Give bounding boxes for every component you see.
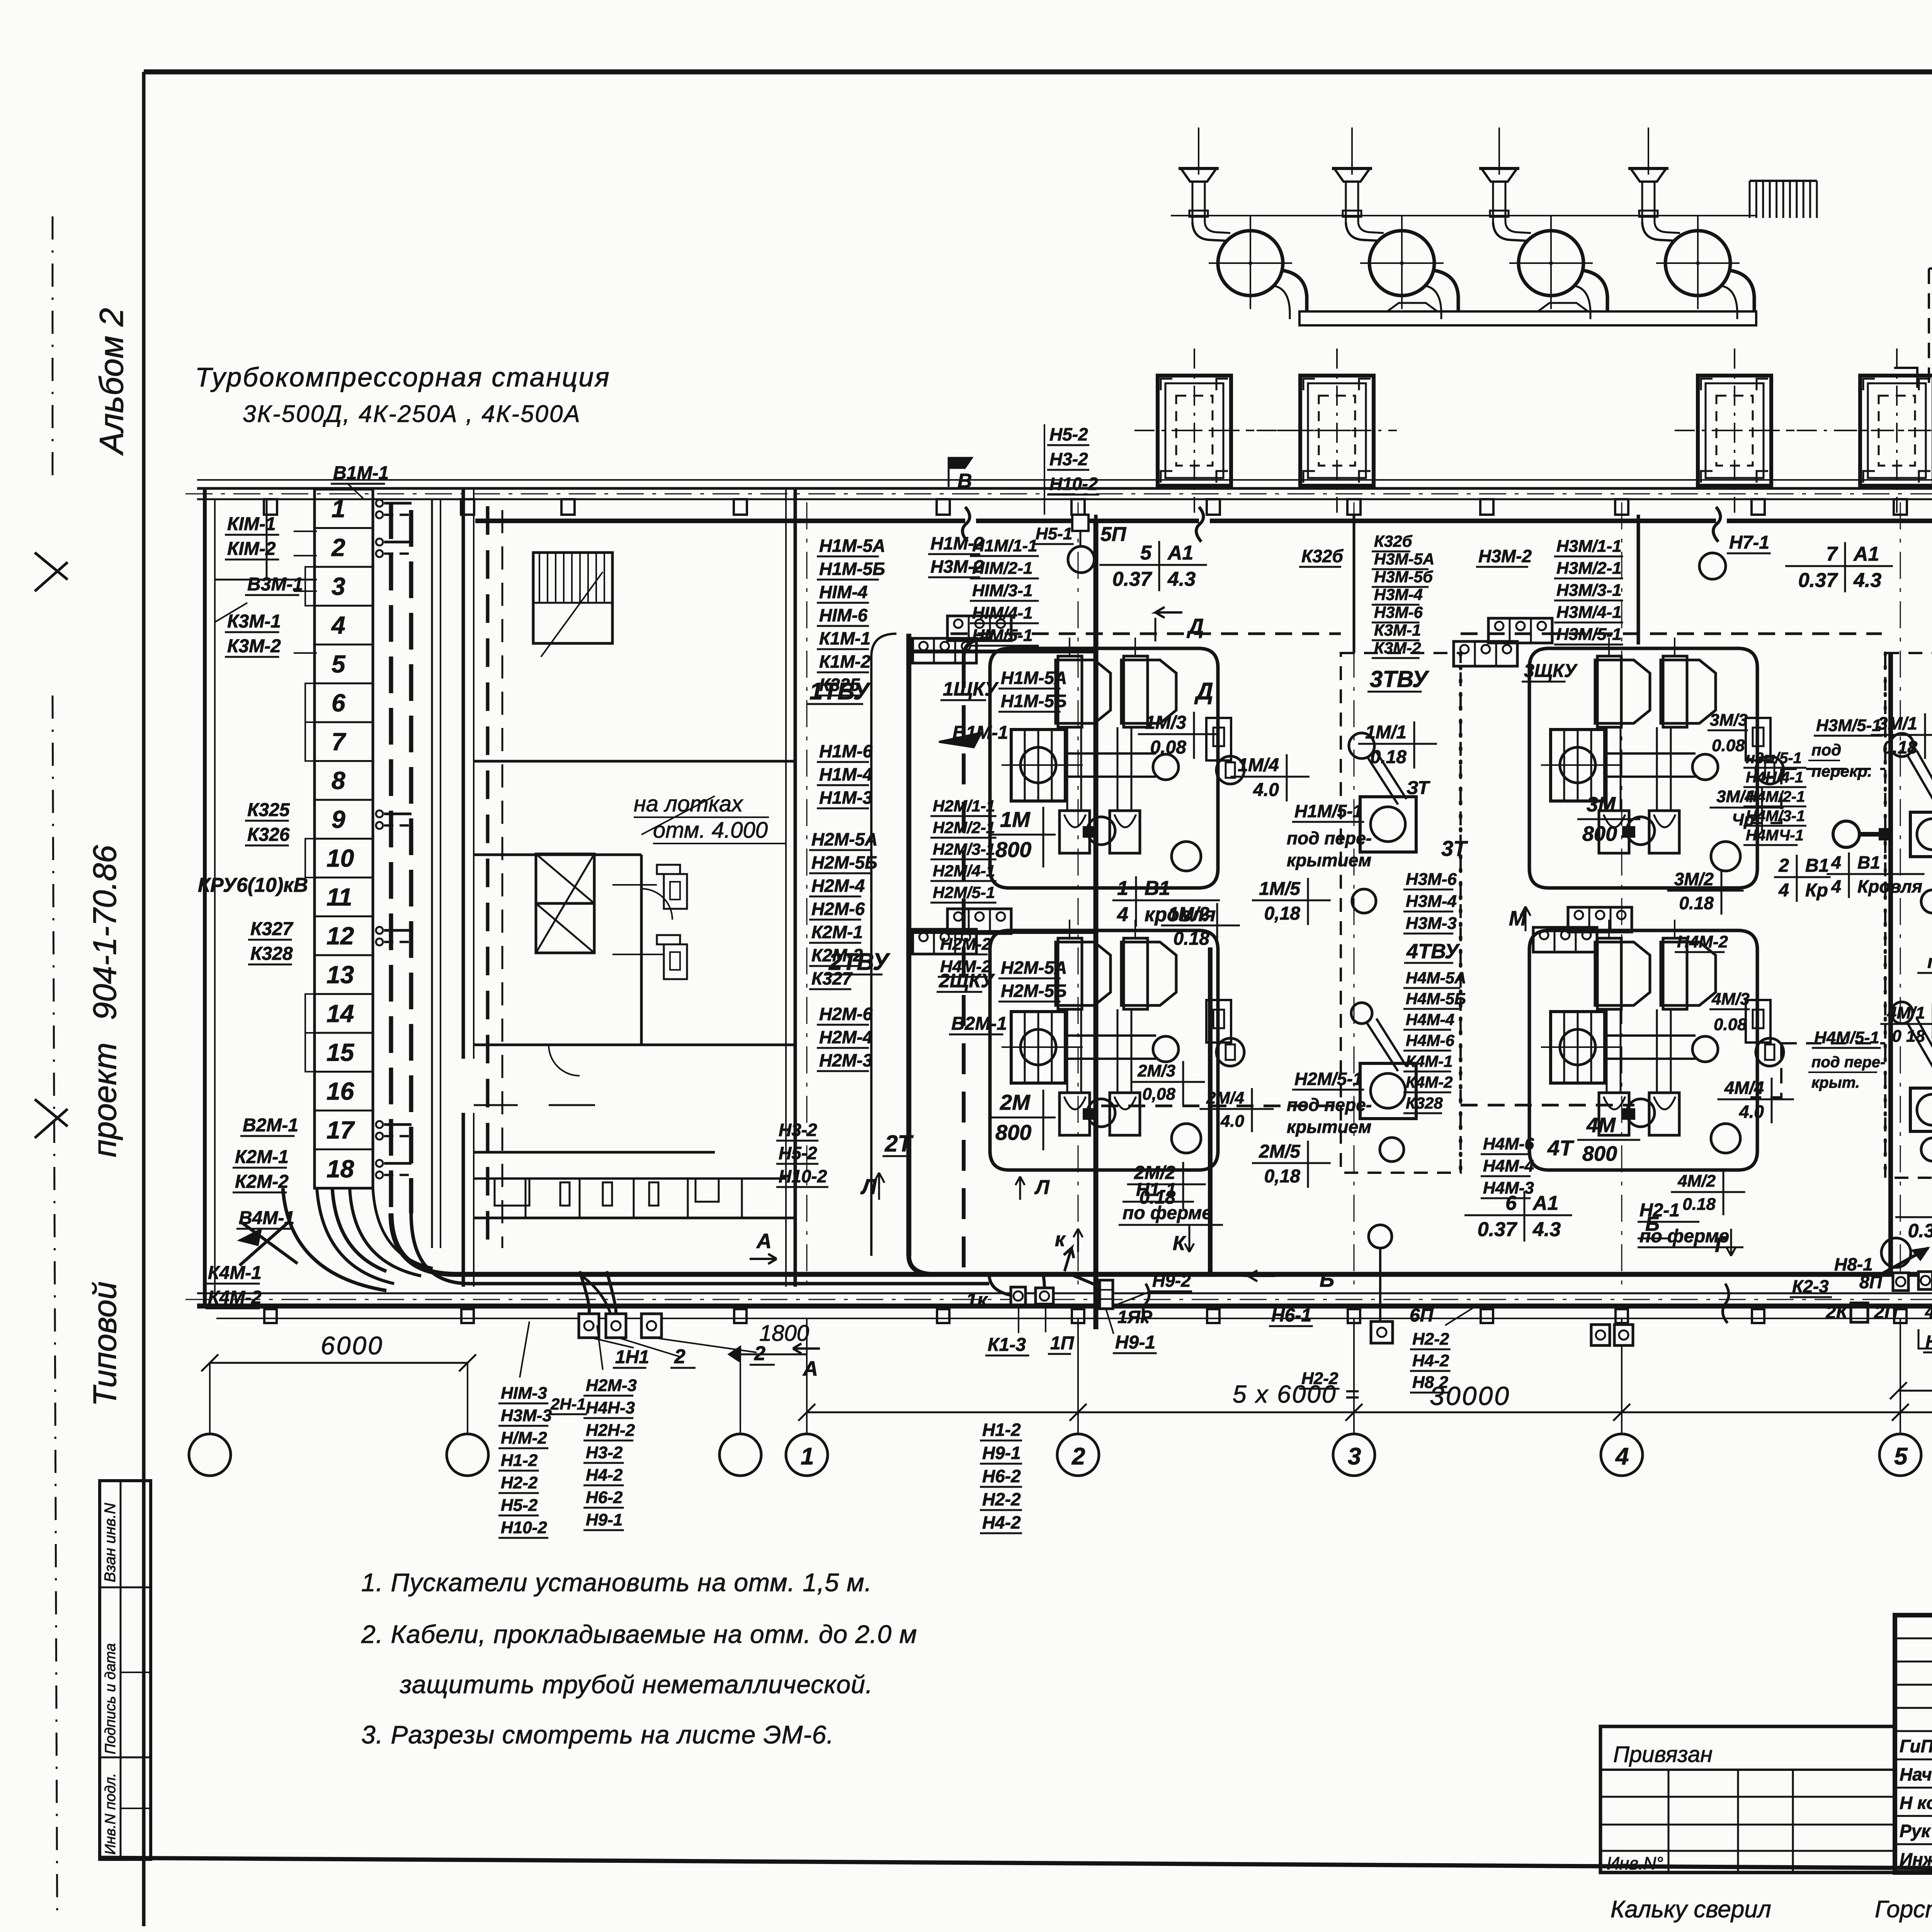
svg-text:к: к — [1055, 1228, 1066, 1251]
svg-text:0,18: 0,18 — [1264, 1166, 1301, 1187]
svg-text:НIМ/5-1: НIМ/5-1 — [972, 626, 1032, 645]
svg-text:проект: проект — [87, 1043, 123, 1157]
svg-text:Н3М-5б: Н3М-5б — [1374, 568, 1433, 586]
svg-text:2М: 2М — [1000, 1090, 1031, 1114]
svg-text:Н6-2: Н6-2 — [586, 1488, 623, 1507]
svg-text:Н2-2: Н2-2 — [1301, 1369, 1338, 1388]
svg-text:К32б: К32б — [1301, 546, 1344, 566]
svg-text:800: 800 — [1582, 822, 1617, 845]
svg-text:Н1М-5Б: Н1М-5Б — [819, 559, 885, 579]
svg-text:Н2М/2-1: Н2М/2-1 — [933, 818, 995, 837]
svg-text:3Т: 3Т — [1441, 836, 1468, 861]
svg-text:К4М-2: К4М-2 — [1406, 1073, 1453, 1091]
svg-text:В1М-1: В1М-1 — [333, 463, 389, 483]
svg-text:10: 10 — [327, 844, 354, 872]
svg-text:11: 11 — [327, 883, 352, 911]
svg-text:Н4Н-3: Н4Н-3 — [586, 1398, 635, 1417]
svg-text:0,18: 0,18 — [1264, 903, 1301, 924]
svg-text:1800: 1800 — [759, 1321, 809, 1346]
svg-text:КIМ-1: КIМ-1 — [227, 514, 276, 534]
svg-text:Г: Г — [1715, 1233, 1729, 1257]
svg-text:1ТВУ: 1ТВУ — [810, 678, 871, 705]
svg-text:под пере-: под пере- — [1287, 1095, 1372, 1115]
svg-text:Кр: Кр — [1805, 880, 1828, 901]
svg-text:К4М-1: К4М-1 — [1406, 1052, 1453, 1070]
svg-text:Кальку сверил: Кальку сверил — [1611, 1896, 1771, 1923]
svg-text:12: 12 — [327, 922, 354, 950]
svg-text:Н1М-5А: Н1М-5А — [819, 536, 885, 556]
svg-text:под пере-: под пере- — [1811, 1054, 1885, 1071]
svg-text:Н1М-6: Н1М-6 — [819, 741, 872, 761]
svg-text:НIМ/4-1: НIМ/4-1 — [972, 604, 1032, 622]
svg-text:Д: Д — [1194, 678, 1213, 705]
svg-text:Н3М-6: Н3М-6 — [1374, 603, 1423, 621]
svg-text:Н3М/5-1: Н3М/5-1 — [1816, 716, 1881, 735]
svg-text:под: под — [1811, 741, 1841, 759]
svg-text:К3М-2: К3М-2 — [1374, 639, 1421, 657]
svg-text:А1: А1 — [1167, 542, 1193, 564]
svg-text:3М/3: 3М/3 — [1710, 711, 1748, 730]
svg-text:0.18: 0.18 — [1682, 1195, 1716, 1214]
svg-text:5П: 5П — [1100, 523, 1127, 546]
svg-text:Н4М-2: Н4М-2 — [1677, 932, 1728, 951]
svg-text:Н1-2: Н1-2 — [501, 1451, 538, 1470]
svg-text:Н2М-5Б: Н2М-5Б — [811, 852, 878, 872]
svg-text:К4М-2: К4М-2 — [208, 1287, 262, 1308]
svg-text:Н1М-4: Н1М-4 — [819, 764, 872, 784]
svg-text:К328: К328 — [1406, 1094, 1443, 1112]
svg-text:Н1М-5Б: Н1М-5Б — [1001, 691, 1067, 711]
svg-text:14: 14 — [327, 1000, 354, 1027]
svg-text:Н2М/5-1: Н2М/5-1 — [933, 883, 995, 901]
svg-text:перекр.: перекр. — [1811, 762, 1872, 780]
svg-text:0.37: 0.37 — [1798, 569, 1838, 592]
svg-text:по ферме: по ферме — [1927, 952, 1932, 972]
svg-text:0.18: 0.18 — [1679, 893, 1714, 913]
svg-text:крытием: крытием — [1287, 850, 1371, 870]
svg-text:Н4-2: Н4-2 — [586, 1466, 623, 1485]
svg-text:1М: 1М — [1000, 807, 1031, 832]
svg-text:Н4М-4: Н4М-4 — [1483, 1156, 1534, 1175]
svg-text:Нач.отд.: Нач.отд. — [1900, 1764, 1932, 1784]
svg-text:В2М-1: В2М-1 — [243, 1115, 298, 1136]
svg-text:0 18: 0 18 — [1892, 1027, 1925, 1046]
svg-text:Н4М-2: Н4М-2 — [940, 957, 992, 976]
svg-text:4.3: 4.3 — [1532, 1218, 1561, 1241]
svg-text:800: 800 — [1582, 1142, 1617, 1165]
svg-text:А: А — [756, 1230, 772, 1253]
svg-text:4Т: 4Т — [1547, 1136, 1575, 1160]
svg-text:Н2М-5А: Н2М-5А — [1001, 957, 1067, 978]
svg-text:4.3: 4.3 — [1167, 568, 1196, 590]
svg-text:Н7-1: Н7-1 — [1729, 532, 1769, 553]
svg-text:Н3М/1-1: Н3М/1-1 — [1556, 537, 1622, 556]
svg-text:0.18: 0.18 — [1883, 737, 1917, 757]
svg-text:отм. 4.000: отм. 4.000 — [653, 818, 768, 843]
svg-text:Н2М-3: Н2М-3 — [819, 1050, 872, 1070]
svg-text:Н2М-6: Н2М-6 — [819, 1004, 872, 1024]
svg-text:1М/3: 1М/3 — [1145, 713, 1186, 733]
svg-text:Н4-2: Н4-2 — [1925, 1332, 1932, 1352]
svg-text:1П: 1П — [1050, 1333, 1075, 1354]
svg-text:Н3М/4-1: Н3М/4-1 — [1556, 603, 1622, 622]
svg-text:Н2-2: Н2-2 — [501, 1473, 538, 1492]
svg-text:В2М-1: В2М-1 — [951, 1014, 1007, 1034]
svg-text:НIМ/2-1: НIМ/2-1 — [972, 559, 1032, 578]
svg-text:КIМ-2: КIМ-2 — [227, 539, 276, 559]
svg-text:Н3М/2-1: Н3М/2-1 — [1556, 559, 1622, 578]
svg-text:Л: Л — [860, 1174, 877, 1199]
svg-text:Н4МЧ-1: Н4МЧ-1 — [1746, 827, 1804, 844]
svg-text:3М: 3М — [1587, 793, 1616, 816]
svg-text:3К-500Д, 4К-250А , 4К-500А: 3К-500Д, 4К-250А , 4К-500А — [243, 401, 581, 427]
svg-text:Н3М-3: Н3М-3 — [501, 1406, 552, 1425]
svg-text:6П: 6П — [1410, 1305, 1434, 1326]
svg-text:Инженер: Инженер — [1900, 1849, 1932, 1869]
svg-text:Н2-1: Н2-1 — [1639, 1200, 1680, 1221]
svg-text:Н2-2: Н2-2 — [982, 1489, 1021, 1509]
svg-text:Н5-2: Н5-2 — [501, 1496, 538, 1515]
svg-text:4ТВУ: 4ТВУ — [1406, 940, 1460, 963]
svg-text:6000: 6000 — [321, 1331, 384, 1360]
svg-text:Н3М-4: Н3М-4 — [1406, 892, 1457, 911]
svg-text:Типовой: Типовой — [87, 1281, 123, 1406]
svg-text:Н4М/5-1: Н4М/5-1 — [1814, 1028, 1879, 1047]
svg-text:НIМ-4: НIМ-4 — [819, 582, 867, 602]
svg-text:1: 1 — [332, 495, 345, 522]
svg-text:К327: К327 — [250, 919, 294, 939]
svg-text:8: 8 — [332, 767, 345, 794]
svg-text:Н4-2: Н4-2 — [1412, 1351, 1449, 1370]
svg-text:4П: 4П — [1925, 1303, 1932, 1321]
svg-text:7: 7 — [1826, 543, 1838, 565]
svg-text:НIМ/3-1: НIМ/3-1 — [972, 581, 1032, 600]
svg-text:800: 800 — [995, 837, 1031, 862]
svg-text:А: А — [802, 1357, 818, 1380]
svg-text:Б: Б — [1320, 1268, 1334, 1291]
svg-text:В1: В1 — [1145, 877, 1170, 900]
svg-text:4: 4 — [1117, 903, 1128, 926]
svg-text:Н5-2: Н5-2 — [779, 1143, 817, 1163]
svg-text:К: К — [1173, 1232, 1186, 1255]
svg-text:Инв.N подл.: Инв.N подл. — [102, 1773, 119, 1855]
svg-text:Н1-2: Н1-2 — [982, 1420, 1021, 1440]
svg-text:ЗТ: ЗТ — [1406, 778, 1430, 798]
svg-text:Н4Н/4-1: Н4Н/4-1 — [1746, 769, 1803, 786]
svg-text:Н1-1: Н1-1 — [1136, 1180, 1176, 1200]
svg-text:2: 2 — [331, 534, 345, 561]
svg-text:2П: 2П — [1874, 1302, 1898, 1323]
svg-text:К2М-2: К2М-2 — [235, 1172, 289, 1192]
svg-text:1ЯР: 1ЯР — [1117, 1307, 1152, 1327]
svg-text:Н3М/3-1: Н3М/3-1 — [1556, 581, 1622, 600]
svg-text:Н1М/5-1: Н1М/5-1 — [1294, 801, 1362, 821]
svg-text:1. Пускатели установить на: 1. Пускатели установить на отм. 1,5 м. — [361, 1568, 872, 1597]
svg-text:Н3М-3: Н3М-3 — [1406, 914, 1457, 933]
svg-text:К328: К328 — [250, 944, 293, 964]
svg-text:0.08: 0.08 — [1712, 736, 1745, 755]
svg-text:Н3М-2: Н3М-2 — [1478, 546, 1532, 566]
svg-text:на лотках: на лотках — [634, 791, 743, 816]
svg-text:1: 1 — [801, 1443, 814, 1470]
svg-text:3М/2: 3М/2 — [1674, 869, 1714, 889]
svg-text:2Н-1: 2Н-1 — [550, 1395, 586, 1413]
svg-text:2К: 2К — [1825, 1302, 1849, 1323]
svg-text:1к: 1к — [966, 1289, 988, 1311]
svg-text:4: 4 — [1615, 1443, 1629, 1470]
svg-text:Альбом 2: Альбом 2 — [93, 308, 130, 456]
svg-text:В1: В1 — [1805, 855, 1829, 876]
svg-text:2М/4: 2М/4 — [1206, 1088, 1244, 1107]
svg-text:Н4-2: Н4-2 — [982, 1512, 1021, 1532]
svg-text:Рук гр: Рук гр — [1900, 1821, 1932, 1841]
svg-text:Н/М-2: Н/М-2 — [501, 1429, 547, 1447]
svg-text:3: 3 — [1348, 1443, 1361, 1470]
svg-text:16: 16 — [327, 1077, 354, 1105]
svg-text:17: 17 — [327, 1116, 355, 1144]
svg-text:Взан инв.N: Взан инв.N — [102, 1503, 119, 1582]
svg-text:1ЩКУ: 1ЩКУ — [943, 678, 999, 700]
svg-text:Н2М-6: Н2М-6 — [811, 899, 865, 919]
svg-text:Н8-1: Н8-1 — [1834, 1254, 1873, 1274]
svg-text:2Т: 2Т — [884, 1131, 913, 1156]
svg-text:Турбокомпрессорная станция: Турбокомпрессорная станция — [195, 362, 611, 392]
svg-text:Н3М/5-1: Н3М/5-1 — [1556, 625, 1622, 644]
svg-text:3ТВУ: 3ТВУ — [1370, 666, 1430, 692]
svg-text:Н6-2: Н6-2 — [982, 1466, 1021, 1486]
svg-text:6: 6 — [332, 689, 345, 717]
svg-text:К3М-1: К3М-1 — [1374, 621, 1421, 639]
svg-text:0.37: 0.37 — [1478, 1218, 1517, 1241]
svg-text:Н6-1: Н6-1 — [1271, 1305, 1311, 1326]
svg-text:н3м/5-1: н3м/5-1 — [1746, 750, 1802, 767]
svg-text:К2М-1: К2М-1 — [235, 1147, 289, 1167]
svg-text:5: 5 — [1140, 542, 1152, 564]
svg-text:18: 18 — [327, 1155, 354, 1183]
svg-text:Н2М-5А: Н2М-5А — [811, 829, 878, 849]
svg-text:9: 9 — [332, 805, 345, 833]
svg-text:по ферме: по ферме — [1122, 1203, 1212, 1223]
svg-text:Н2М/4-1: Н2М/4-1 — [933, 862, 995, 880]
svg-text:0.37: 0.37 — [1908, 1220, 1932, 1242]
svg-text:Н4М-6: Н4М-6 — [1483, 1134, 1534, 1153]
svg-text:Н2М/5-1: Н2М/5-1 — [1294, 1069, 1362, 1089]
svg-text:Н4М-5А: Н4М-5А — [1406, 969, 1466, 987]
svg-text:крытием: крытием — [1287, 1117, 1371, 1137]
svg-text:5: 5 — [332, 650, 346, 678]
svg-text:Н2М-3: Н2М-3 — [586, 1376, 637, 1395]
svg-text:1Н1: 1Н1 — [615, 1347, 649, 1367]
svg-text:4.3: 4.3 — [1853, 569, 1881, 592]
svg-text:К1-3: К1-3 — [988, 1335, 1026, 1355]
svg-text:В1: В1 — [1857, 852, 1880, 872]
svg-text:2: 2 — [1071, 1443, 1085, 1470]
svg-text:4М/1: 4М/1 — [1887, 1003, 1925, 1022]
svg-text:КРУ6(10)кВ: КРУ6(10)кВ — [198, 874, 308, 896]
svg-text:Д: Д — [1187, 614, 1204, 638]
svg-text:К3М-2: К3М-2 — [227, 636, 281, 656]
svg-text:1: 1 — [1117, 877, 1128, 900]
svg-text:800: 800 — [995, 1120, 1031, 1145]
svg-text:К1М-2: К1М-2 — [819, 651, 871, 672]
svg-text:Н3-2: Н3-2 — [779, 1120, 817, 1140]
svg-text:3М/1: 3М/1 — [1878, 713, 1917, 733]
svg-text:Н4М-4: Н4М-4 — [1406, 1010, 1454, 1029]
svg-text:Н3М-6: Н3М-6 — [1406, 870, 1457, 889]
svg-text:4.0: 4.0 — [1739, 1102, 1764, 1122]
svg-text:5: 5 — [1894, 1443, 1908, 1470]
svg-text:Н4М-5Б: Н4М-5Б — [1406, 990, 1466, 1008]
svg-text:К2-3: К2-3 — [1792, 1276, 1829, 1296]
svg-text:3ЩКУ: 3ЩКУ — [1524, 661, 1578, 681]
svg-text:4.0: 4.0 — [1220, 1112, 1245, 1131]
svg-text:К326: К326 — [247, 825, 290, 845]
svg-text:Н5-1: Н5-1 — [1036, 524, 1072, 543]
svg-text:под пере-: под пере- — [1287, 828, 1372, 848]
svg-text:крыт.: крыт. — [1811, 1074, 1860, 1091]
svg-text:2М/5: 2М/5 — [1259, 1141, 1301, 1162]
svg-text:Н2М/1-1: Н2М/1-1 — [933, 797, 995, 815]
svg-text:Н2М/3-1: Н2М/3-1 — [933, 840, 995, 858]
svg-text:4: 4 — [1778, 880, 1789, 901]
svg-text:Н4М/2-1: Н4М/2-1 — [1746, 788, 1805, 805]
svg-text:0,08: 0,08 — [1142, 1085, 1175, 1104]
svg-text:Н4М/3-1: Н4М/3-1 — [1746, 808, 1805, 825]
svg-text:ГиП: ГиП — [1900, 1736, 1932, 1756]
svg-text:Н9-1: Н9-1 — [1115, 1332, 1155, 1353]
svg-text:Н10-2: Н10-2 — [779, 1166, 827, 1186]
svg-text:К325: К325 — [247, 800, 290, 820]
svg-text:Горстка: Горстка — [1875, 1896, 1932, 1923]
svg-text:защитить трубой неметалличес: защитить трубой неметаллической. — [400, 1670, 873, 1699]
svg-text:К4М-1: К4М-1 — [208, 1263, 262, 1283]
svg-text:4М/3: 4М/3 — [1711, 990, 1750, 1009]
svg-text:Кровля: Кровля — [1857, 876, 1922, 896]
svg-text:Н2Н-2: Н2Н-2 — [586, 1421, 635, 1440]
svg-text:3: 3 — [332, 572, 345, 600]
svg-text:2: 2 — [1778, 855, 1789, 876]
svg-text:В1М-1: В1М-1 — [952, 723, 1008, 743]
svg-text:Н9-1: Н9-1 — [586, 1510, 622, 1529]
svg-text:1М/1: 1М/1 — [1365, 722, 1406, 743]
svg-text:Н3М-5А: Н3М-5А — [1374, 550, 1434, 568]
svg-text:В4М-1: В4М-1 — [239, 1208, 294, 1228]
svg-text:Л: Л — [1034, 1176, 1050, 1199]
svg-text:Н1М-3: Н1М-3 — [819, 787, 872, 808]
svg-text:К32б: К32б — [1374, 532, 1413, 550]
svg-text:Н10-2: Н10-2 — [501, 1518, 547, 1537]
svg-text:Н2М-2: Н2М-2 — [940, 935, 992, 954]
svg-text:Н2М-5Б: Н2М-5Б — [1001, 981, 1067, 1001]
svg-text:А1: А1 — [1532, 1192, 1558, 1214]
svg-text:4: 4 — [1831, 852, 1841, 872]
svg-text:Н3М-4: Н3М-4 — [1374, 585, 1423, 604]
svg-text:4М: 4М — [1586, 1114, 1616, 1137]
svg-text:Н2М-4: Н2М-4 — [819, 1027, 872, 1047]
svg-text:904-1-70.86: 904-1-70.86 — [87, 845, 123, 1020]
svg-text:Н8 2: Н8 2 — [1412, 1373, 1448, 1392]
svg-text:1М/5: 1М/5 — [1259, 879, 1301, 899]
svg-text:Н9-1: Н9-1 — [982, 1443, 1021, 1463]
svg-text:Н3-2: Н3-2 — [1049, 449, 1088, 469]
svg-text:Инв.N°: Инв.N° — [1607, 1853, 1663, 1873]
svg-text:2: 2 — [754, 1342, 765, 1365]
svg-text:Привязан: Привязан — [1613, 1742, 1713, 1767]
svg-text:Н5-2: Н5-2 — [1049, 424, 1088, 444]
svg-text:Н9-2: Н9-2 — [1152, 1270, 1191, 1291]
svg-text:4: 4 — [1831, 876, 1841, 896]
svg-text:0.18: 0.18 — [1371, 747, 1407, 767]
svg-text:3. Разрезы смотреть на лист: 3. Разрезы смотреть на листе ЭМ-6. — [361, 1720, 834, 1749]
svg-text:4: 4 — [331, 611, 345, 639]
svg-text:2ТВУ: 2ТВУ — [828, 949, 890, 975]
svg-text:4.0: 4.0 — [1253, 780, 1279, 800]
svg-text:0.08: 0.08 — [1150, 737, 1187, 758]
svg-text:0.18: 0.18 — [1173, 929, 1210, 949]
svg-text:4М/2: 4М/2 — [1677, 1172, 1716, 1190]
svg-text:Н3-2: Н3-2 — [586, 1443, 623, 1462]
svg-text:Н1М/1-1: Н1М/1-1 — [972, 536, 1037, 555]
svg-text:Н2М-4: Н2М-4 — [811, 876, 865, 896]
svg-text:К2М-1: К2М-1 — [811, 922, 863, 942]
svg-text:В: В — [957, 470, 972, 492]
svg-text:Подпись и дата: Подпись и дата — [102, 1643, 119, 1754]
svg-text:НIМ-6: НIМ-6 — [819, 605, 868, 625]
svg-text:5 x 6000 =: 5 x 6000 = — [1233, 1380, 1361, 1408]
svg-text:НIМ-3: НIМ-3 — [501, 1384, 547, 1403]
svg-text:А1: А1 — [1853, 543, 1879, 565]
svg-text:Н10-2: Н10-2 — [1049, 474, 1098, 494]
svg-text:6: 6 — [1505, 1192, 1517, 1214]
svg-text:1М/4: 1М/4 — [1238, 755, 1279, 776]
svg-text:15: 15 — [327, 1038, 355, 1066]
svg-text:Н4М-6: Н4М-6 — [1406, 1031, 1455, 1049]
svg-text:7: 7 — [332, 728, 347, 755]
svg-text:0.37: 0.37 — [1112, 568, 1152, 590]
svg-text:2. Кабели, прокладываемые на: 2. Кабели, прокладываемые на отм. до 2.0… — [361, 1620, 917, 1648]
svg-text:4М/4: 4М/4 — [1724, 1078, 1764, 1098]
svg-text:2М/3: 2М/3 — [1137, 1061, 1175, 1080]
svg-text:13: 13 — [327, 961, 354, 988]
svg-text:К1М-1: К1М-1 — [819, 628, 871, 648]
svg-text:Н2-2: Н2-2 — [1412, 1330, 1449, 1349]
svg-text:Н конт: Н конт — [1900, 1793, 1932, 1813]
svg-text:Н1М-5А: Н1М-5А — [1001, 668, 1067, 688]
svg-text:К3М-1: К3М-1 — [227, 611, 281, 632]
svg-text:0.08: 0.08 — [1714, 1015, 1747, 1034]
svg-text:1М/2: 1М/2 — [1168, 904, 1209, 924]
